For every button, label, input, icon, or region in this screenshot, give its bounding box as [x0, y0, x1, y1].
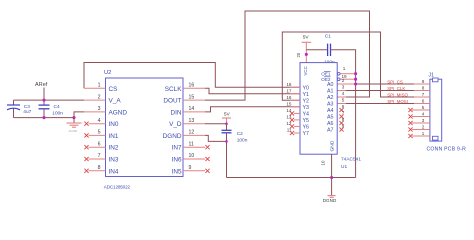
junction dot GND/DGND rail: [330, 176, 333, 179]
svg-text:DGND: DGND: [323, 198, 337, 203]
pin 4 (J1): [408, 112, 430, 119]
connector J1 CONN PCB 9-R body: [427, 72, 467, 152]
svg-text:Y2: Y2: [303, 98, 310, 104]
svg-text:8: 8: [98, 165, 101, 171]
junction dot ARef/C4/V_A rail: [42, 99, 45, 102]
svg-text:8: 8: [422, 86, 425, 91]
supply 5V (V_D): [222, 112, 231, 124]
svg-text:2: 2: [422, 125, 425, 130]
supply label ARef: [35, 82, 48, 88]
pin 13 Y5 (U1 left): [286, 115, 309, 124]
svg-text:DOUT: DOUT: [163, 98, 181, 105]
svg-text:J1: J1: [428, 72, 434, 78]
svg-text:13: 13: [189, 118, 195, 124]
svg-text:A1: A1: [327, 89, 334, 95]
pin 5 (J1): [408, 105, 430, 112]
pin 10 GND label (U1): [329, 140, 335, 151]
pin 1 (J1): [408, 131, 430, 138]
svg-text:5V: 5V: [224, 112, 231, 118]
pin 1 OE1 (U1): [321, 66, 345, 77]
pin 11 Y7 (U1 left): [287, 128, 309, 137]
pin 8 (J1): [414, 86, 430, 91]
svg-text:2: 2: [342, 78, 345, 83]
svg-text:SPI_CS: SPI_CS: [387, 80, 403, 85]
ground AGND: [67, 118, 82, 134]
svg-text:SPI_MISO: SPI_MISO: [387, 93, 408, 98]
svg-text:C4: C4: [54, 104, 60, 110]
wire DIN net (U2 pin14 to U1 Y3): [205, 107, 300, 112]
svg-text:ARef: ARef: [35, 82, 48, 88]
pin 17 Y1 (U1 left): [286, 89, 309, 98]
svg-text:SPI_CLK: SPI_CLK: [387, 86, 405, 91]
pin 7 IN3 (U2 left): [84, 153, 118, 163]
pin 18 Y0 (U1 left): [286, 82, 309, 91]
pin 16 Y2 (U1 left): [286, 95, 309, 104]
pin 9 A7 (U1 right): [327, 123, 345, 133]
svg-text:Y3: Y3: [303, 105, 310, 111]
svg-text:Y5: Y5: [303, 118, 310, 124]
wire DGND rail: [227, 177, 356, 179]
pin 2 A0 (U1 right): [327, 78, 345, 88]
wire CS net (U2 pin1 to U1 Y0): [84, 63, 300, 89]
net label SPI_MISO: [387, 93, 408, 98]
svg-text:16: 16: [189, 83, 195, 89]
svg-text:14: 14: [189, 106, 195, 112]
junction dot V_D/5V/C2: [225, 122, 228, 125]
svg-text:IN2: IN2: [109, 145, 119, 152]
svg-text:A7: A7: [327, 128, 334, 134]
capacitor C2 100n: [222, 124, 248, 178]
svg-text:SCLK: SCLK: [165, 86, 182, 93]
svg-text:9: 9: [422, 79, 425, 84]
svg-text:10: 10: [189, 153, 195, 159]
svg-text:C2: C2: [237, 131, 243, 137]
junction dot C4/AGND rail: [42, 116, 45, 119]
svg-text:3: 3: [98, 106, 101, 112]
pin 1 CS (U2 left): [84, 83, 117, 93]
capacitor C1 100n: [306, 34, 355, 178]
svg-text:100n: 100n: [52, 111, 63, 117]
net label SPI_CS: [387, 80, 403, 85]
svg-text:U2: U2: [104, 70, 111, 76]
svg-text:IN4: IN4: [109, 168, 119, 175]
pin number 20 (U1 VCC): [296, 52, 301, 57]
svg-text:OE1: OE1: [321, 72, 331, 77]
op-amp U1 74AC541 body: [300, 63, 361, 170]
supply 5V (U1 VCC): [302, 35, 312, 63]
svg-text:A6: A6: [327, 121, 334, 127]
pin 14 DIN (U2 right): [170, 106, 205, 116]
svg-text:ADC1285022: ADC1285022: [104, 185, 131, 190]
pin 5 IN1 (U2 left): [84, 130, 118, 140]
svg-text:5: 5: [342, 97, 345, 102]
pin 3 A1 (U1 right): [327, 84, 345, 94]
pin 6 IN2 (U2 left): [84, 141, 118, 151]
svg-text:A3: A3: [327, 102, 334, 108]
svg-text:12: 12: [189, 130, 195, 136]
svg-text:V_D: V_D: [169, 121, 182, 128]
net label SPI_MOSI: [387, 99, 408, 104]
svg-text:A5: A5: [327, 115, 334, 121]
svg-text:IN7: IN7: [172, 145, 182, 152]
svg-text:2: 2: [98, 94, 101, 100]
pin 10 GND stub (U1): [320, 154, 331, 177]
svg-text:9: 9: [189, 165, 192, 171]
wire AGND pin3 net: [74, 112, 84, 118]
svg-text:4: 4: [98, 118, 101, 124]
ground DGND: [323, 178, 337, 203]
svg-text:15: 15: [286, 102, 292, 107]
pin 9 IN5 (U2 right): [172, 165, 210, 175]
pin 2 V_A (U2 left): [84, 94, 121, 104]
svg-text:C1: C1: [325, 34, 331, 40]
pin 12 DGND (U2 right): [163, 130, 205, 140]
wire SPI_CLK net: [337, 90, 430, 92]
pin 9 (J1): [414, 79, 430, 84]
svg-text:Y7: Y7: [303, 131, 310, 137]
svg-text:15: 15: [189, 94, 195, 100]
svg-text:U1: U1: [341, 164, 347, 170]
svg-text:Y1: Y1: [303, 92, 310, 98]
svg-text:1: 1: [98, 83, 101, 89]
wire Y2 buffered MISO net (U1 Y2 over top to J1 pin7): [282, 32, 430, 100]
svg-text:10: 10: [320, 160, 325, 165]
svg-text:1: 1: [343, 66, 346, 71]
wire DOUT net (U2 pin15 over top to U1 A2): [205, 11, 370, 100]
svg-text:16: 16: [286, 95, 292, 100]
svg-text:IN6: IN6: [172, 157, 182, 164]
junction dot 5V/C1: [305, 53, 308, 56]
svg-text:Y4: Y4: [303, 111, 310, 117]
svg-text:IN0: IN0: [109, 121, 119, 128]
junction dot SPI_CS/OE: [354, 82, 357, 85]
svg-text:5: 5: [422, 105, 425, 110]
svg-text:7: 7: [98, 153, 101, 159]
svg-text:6: 6: [98, 141, 101, 147]
svg-text:SPI_MOSI: SPI_MOSI: [387, 99, 408, 104]
pin 19 OE2 (U1): [321, 74, 347, 82]
wire SPI_MISO left segment (A2/DOUT): [337, 96, 346, 98]
svg-text:3: 3: [342, 84, 345, 89]
svg-text:CS: CS: [109, 86, 118, 93]
wire AGND bottom rail: [14, 117, 75, 119]
wire SPI_CS net: [337, 83, 430, 85]
junction dot OE2: [354, 72, 357, 81]
svg-text:GND: GND: [329, 140, 335, 151]
svg-text:IN5: IN5: [172, 168, 182, 175]
pin 4 A2 (U1 right): [327, 91, 345, 101]
pin 13 V_D (U2 right): [169, 118, 205, 128]
wire ARef supply lead: [43, 88, 45, 101]
svg-text:AGND: AGND: [109, 109, 128, 116]
pin 15 Y3 (U1 left): [286, 102, 309, 111]
junction dot DGND/C2: [225, 140, 228, 143]
pin 2 (J1): [408, 125, 430, 132]
svg-text:A2: A2: [327, 95, 334, 101]
svg-text:A4: A4: [327, 108, 334, 114]
svg-text:100n: 100n: [237, 138, 248, 144]
svg-text:A0: A0: [327, 82, 334, 88]
wire SCLK net (U2 pin16 to U1 Y1): [205, 88, 300, 94]
pin 3 AGND (U2 left): [84, 106, 127, 116]
pin 6 (J1): [414, 99, 430, 104]
svg-text:DGND: DGND: [163, 133, 182, 140]
svg-text:74AC541: 74AC541: [341, 156, 361, 162]
junction dot AGND rail/ground: [72, 116, 75, 119]
svg-text:1: 1: [422, 131, 425, 136]
pin 4 IN0 (U2 left): [84, 118, 118, 128]
wire V_D net: [205, 123, 227, 125]
pin 5 A3 (U1 right): [327, 97, 345, 107]
net label SPI_CLK: [387, 86, 405, 91]
wire OE1/OE2 tie to SPI_CS: [340, 74, 356, 80]
svg-text:4: 4: [422, 112, 425, 117]
svg-text:6: 6: [422, 99, 425, 104]
wire SPI_MOSI net: [337, 103, 430, 105]
svg-text:18: 18: [286, 82, 292, 87]
pin 7 (J1): [414, 92, 430, 97]
pin 8 IN4 (U2 left): [84, 165, 118, 175]
wire V_A top rail: [14, 99, 85, 101]
svg-text:V_A: V_A: [109, 98, 122, 105]
pin 3 (J1): [408, 118, 430, 125]
svg-text:Y0: Y0: [303, 85, 310, 91]
pin 10 IN6 (U2 right): [172, 153, 210, 163]
wire DGND pin12 net: [205, 135, 227, 141]
pin 12 Y6 (U1 left): [286, 121, 309, 130]
svg-text:5V: 5V: [303, 35, 310, 41]
svg-text:7: 7: [422, 92, 425, 97]
pin 16 SCLK (U2 right): [165, 83, 205, 93]
capacitor C4 100n: [39, 100, 64, 118]
svg-text:11: 11: [189, 141, 194, 147]
svg-text:5: 5: [98, 130, 101, 136]
svg-text:DIN: DIN: [170, 109, 181, 116]
svg-text:3: 3: [422, 118, 425, 123]
svg-text:17: 17: [286, 89, 292, 94]
svg-text:20: 20: [296, 52, 301, 57]
pin 20 VCC label (U1): [303, 66, 308, 75]
pin 8 A6 (U1 right): [327, 117, 345, 127]
capacitor C3 4u7 (polarized): [7, 100, 32, 118]
svg-text:4: 4: [342, 91, 345, 96]
pin 14 Y4 (U1 left): [286, 108, 309, 117]
pin 11 IN7 (U2 right): [172, 141, 210, 151]
pin 6 A4 (U1 right): [327, 104, 345, 114]
svg-text:IN1: IN1: [109, 133, 119, 140]
svg-text:AGND: AGND: [69, 129, 79, 133]
pin 15 DOUT (U2 right): [163, 94, 205, 104]
svg-text:CONN PCB 9-R: CONN PCB 9-R: [427, 146, 467, 152]
op-amp U2 ADC128S022 body: [104, 70, 183, 189]
svg-text:IN3: IN3: [109, 157, 119, 164]
svg-text:4u7: 4u7: [23, 109, 31, 115]
svg-text:Y6: Y6: [303, 124, 310, 130]
pin 7 A5 (U1 right): [327, 110, 345, 120]
svg-text:VCC: VCC: [303, 66, 308, 75]
